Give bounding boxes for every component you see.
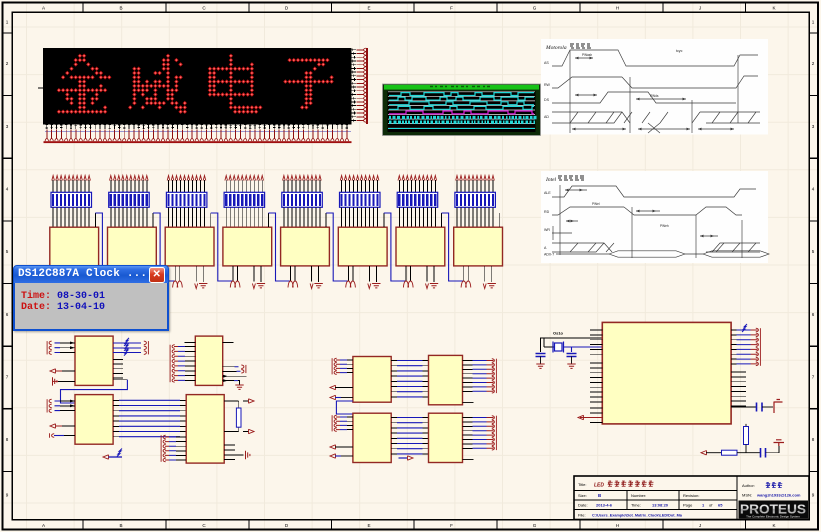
svg-text:MSN:: MSN: — [742, 493, 752, 498]
terminal arrow bundle above U6 — [283, 176, 286, 181]
IC U9 — [454, 227, 503, 266]
IC bottom pins and wires — [175, 266, 203, 282]
IC U12 — [75, 395, 113, 445]
IC bottom pins and wires — [233, 266, 261, 282]
pins lower right of U11 — [223, 376, 247, 380]
bottom stub right of U15 — [463, 402, 474, 404]
input terminal fan left of U14 — [331, 358, 333, 374]
output terminal fan right of U17 — [487, 418, 494, 449]
terminal bells below IC — [173, 281, 178, 288]
ground — [488, 284, 496, 288]
terminal arrows lower-left of U14 — [330, 385, 336, 389]
wire across pin header — [45, 130, 351, 132]
terminal arrow bundle above U7 — [340, 176, 343, 181]
terminal bells below IC — [461, 281, 466, 288]
Intel bus read/write timing diagram — [541, 171, 768, 263]
wire crystal top — [541, 338, 603, 352]
capacitor C2 — [567, 354, 577, 357]
svg-text:C:\Users_Example\Dot_Matrix_Cl: C:\Users_Example\Dot_Matrix_Clock\LED\Do… — [592, 514, 683, 518]
U1 right pins lower — [731, 372, 746, 406]
IC U13 — [186, 395, 224, 464]
svg-text:The Complete Electronic Design: The Complete Electronic Design System — [746, 514, 800, 518]
plain pins right of U10 — [113, 360, 123, 378]
wires from resistor network to IC — [457, 207, 493, 227]
wire linking to next stage — [267, 213, 269, 227]
ground right of U13 — [246, 451, 250, 459]
svg-text:File:: File: — [578, 513, 586, 518]
ground — [257, 284, 265, 288]
svg-text:Date:: Date: — [578, 503, 588, 508]
input terminals left of U10 — [46, 341, 48, 354]
LED matrix right pin terminals — [352, 48, 357, 122]
U1 left pins — [590, 330, 602, 423]
svg-text:B: B — [598, 493, 601, 498]
wires from resistor network to IC — [226, 207, 262, 227]
terminal arrow bundle above U8 — [398, 176, 401, 181]
logic analyser LCD display — [383, 84, 541, 136]
power flag — [774, 400, 783, 414]
terminal arrows lower-left of U16 — [330, 445, 336, 449]
terminal bells below IC — [57, 281, 62, 288]
resistor network RN7 — [397, 192, 438, 207]
IC U14 — [353, 357, 391, 403]
output terminal fan right of U15 — [487, 361, 494, 392]
terminal bells below IC — [115, 281, 120, 288]
title block — [574, 476, 809, 520]
bus wires U16 to U17 — [391, 418, 428, 454]
wire linking to next stage — [94, 213, 96, 227]
ground — [84, 284, 92, 288]
wires from resistor network to IC — [169, 207, 205, 227]
IC U15 — [429, 355, 463, 404]
terminal arrow bundle above U4 — [167, 176, 170, 181]
PROTEUS logo — [739, 501, 809, 519]
terminal arrow left of U12 — [50, 424, 56, 428]
terminal bells below IC — [288, 281, 293, 288]
pin stub left of LED display — [38, 87, 43, 89]
ground — [372, 284, 380, 288]
IC U8 — [396, 227, 445, 266]
terminal arrow — [195, 284, 198, 289]
resistor network RN1 — [51, 192, 92, 207]
terminal arrow — [483, 284, 486, 289]
wires from resistor network to IC — [342, 207, 378, 227]
wires from resistor network to IC — [284, 207, 320, 227]
IC U2 — [50, 227, 99, 266]
resistor network RN6 — [340, 192, 381, 207]
terminal arrow bundle above U3 — [110, 176, 113, 181]
ground — [199, 284, 207, 288]
svg-text:Time:: Time: — [631, 503, 641, 508]
resistor R1 — [744, 427, 749, 445]
popup body text — [21, 291, 105, 314]
IC U17 — [429, 413, 463, 462]
terminal bells below IC — [403, 281, 408, 288]
svg-text:Number:: Number: — [631, 493, 646, 498]
wire from U10 to U12 — [113, 379, 127, 381]
output terminals right of U11 — [223, 367, 237, 372]
crystal X1 — [555, 343, 563, 351]
wire crystal to C2 — [564, 347, 603, 352]
terminal arrow bundle above U9 — [456, 176, 459, 181]
IC U10 — [75, 336, 113, 385]
resistor network RN8 — [455, 192, 496, 207]
svg-text:13:08:20: 13:08:20 — [652, 503, 669, 508]
IC U4 — [165, 227, 214, 266]
ground — [141, 284, 149, 288]
ground right of U11 — [238, 381, 240, 385]
wire linking to next stage — [383, 213, 385, 227]
popup close button — [149, 267, 166, 283]
terminal below U16 — [399, 457, 408, 459]
svg-text:65: 65 — [718, 503, 723, 508]
resistor R2 — [722, 450, 738, 455]
input terminal fan left of U11 — [169, 345, 171, 383]
input terminals left of U12 — [46, 399, 48, 412]
bus wires U14 to U15 — [391, 361, 428, 397]
svg-text:LED: LED — [594, 483, 604, 489]
ground — [536, 364, 544, 368]
terminal bells below IC — [230, 281, 235, 288]
top pin stubs of U11 — [184, 341, 233, 343]
capacitor C4 — [761, 448, 766, 458]
svg-text:Size:: Size: — [578, 493, 587, 498]
IC U5 — [223, 227, 272, 266]
terminal arrow bundle above U2 — [52, 176, 55, 181]
Motorola bus read/write timing diagram — [541, 39, 768, 135]
capacitor C3 — [731, 406, 756, 408]
IC bottom pins and wires — [60, 266, 88, 282]
svg-text:Revision:: Revision: — [683, 493, 699, 498]
wire linking to next stage — [152, 213, 154, 227]
terminal arrow — [368, 284, 371, 289]
wire linking to next stage — [210, 213, 212, 227]
wire from U14 to U16 — [336, 401, 353, 414]
IC bottom pins and wires — [118, 266, 146, 282]
svg-text:Page: Page — [683, 503, 693, 508]
terminal arrow — [252, 284, 255, 289]
wire R1 to node — [745, 445, 747, 453]
resistor network RN2 — [109, 192, 150, 207]
IC U3 — [108, 227, 157, 266]
IC bottom pins and wires — [291, 266, 319, 282]
terminal arrow — [79, 284, 82, 289]
terminal below U12 — [103, 455, 109, 459]
dot matrix LED display LED1 — [43, 48, 352, 125]
IC bottom pins and wires — [406, 266, 434, 282]
wires from resistor network to IC — [399, 207, 435, 227]
IC U16 — [353, 413, 391, 462]
U1 right pins upper with terminal fan — [751, 330, 758, 364]
pins bottom-right of U13 — [224, 445, 244, 460]
bus taps right of U10 — [113, 343, 141, 353]
terminal bells below IC — [346, 281, 351, 288]
terminal arrow — [310, 284, 313, 289]
IC U7 — [338, 227, 387, 266]
wire U1 to R1 — [745, 424, 747, 427]
input terminal fan left of U16 — [331, 415, 333, 431]
resistor network RN5 — [282, 192, 323, 207]
capacitor C1 — [536, 354, 546, 357]
wire C4 to power — [766, 446, 779, 453]
terminal arrow + ground left of U10 — [50, 369, 56, 373]
terminal arrow bundle above U5 — [225, 176, 228, 181]
terminal arrow — [426, 284, 429, 289]
wire R2 to node — [737, 452, 761, 454]
LED matrix bottom pin terminals — [46, 124, 349, 129]
ground — [567, 364, 575, 368]
wires from resistor network to IC — [53, 207, 89, 227]
wire linking to next stage — [498, 213, 500, 227]
power flag — [774, 440, 785, 446]
terminal arrow — [137, 284, 140, 289]
wires from resistor network to IC — [111, 207, 147, 227]
microcontroller U1 — [602, 322, 731, 424]
svg-text:2013-4-6: 2013-4-6 — [596, 503, 613, 508]
ground — [430, 284, 438, 288]
svg-text:wangzh1933@126.com: wangzh1933@126.com — [756, 493, 801, 498]
DS12C887A clock popup window — [13, 265, 169, 332]
terminal arrow reset — [701, 451, 707, 455]
ground — [314, 284, 322, 288]
bottom stub right of U17 — [463, 459, 474, 461]
IC U6 — [281, 227, 330, 266]
svg-text:Author:: Author: — [742, 483, 755, 488]
terminal lower-left of U1 — [578, 415, 584, 419]
wire linking to next stage — [441, 213, 443, 227]
bus wires U12 to U13 — [113, 400, 186, 436]
svg-text:Title:: Title: — [578, 482, 587, 487]
wire linking to next stage — [325, 213, 327, 227]
input chevron left of U12 — [49, 433, 51, 438]
resistor R3 — [236, 408, 241, 427]
output wire + resistor R3 right of U13 — [224, 401, 239, 432]
IC bottom pins and wires — [464, 266, 492, 282]
IC U11 — [195, 336, 222, 385]
resistor network RN3 — [166, 192, 207, 207]
IC bottom pins and wires — [348, 266, 376, 282]
resistor network RN4 — [224, 192, 265, 207]
input terminal fan lower-left of U13 — [160, 435, 162, 462]
wire — [706, 452, 722, 454]
bus squiggle — [742, 324, 747, 332]
